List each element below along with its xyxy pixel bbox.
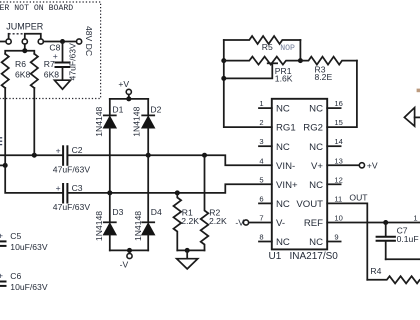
svg-text:JUMPER: JUMPER xyxy=(6,21,44,31)
svg-text:2.2K: 2.2K xyxy=(209,216,227,226)
wire: jumper pin C to 48V terminal xyxy=(43,41,76,43)
svg-text:16: 16 xyxy=(334,99,342,108)
node: rail junction at jumper pin B xyxy=(22,48,27,53)
resistor R2 xyxy=(201,155,209,250)
svg-text:1N4148: 1N4148 xyxy=(94,106,104,136)
svg-text:12: 12 xyxy=(334,175,342,184)
diode D1 xyxy=(109,99,111,116)
svg-text:C3: C3 xyxy=(72,183,83,193)
pin 6 stub xyxy=(259,202,272,204)
svg-text:-V: -V xyxy=(235,218,244,228)
capacitor C2 xyxy=(62,145,64,166)
svg-text:1.6K: 1.6K xyxy=(275,74,293,84)
svg-text:1N4148: 1N4148 xyxy=(133,211,143,241)
diode D3 xyxy=(109,193,111,222)
potentiometer PR1 xyxy=(224,57,301,65)
svg-text:+V: +V xyxy=(118,79,129,89)
svg-text:47uF/63V: 47uF/63V xyxy=(53,165,91,175)
svg-text:15: 15 xyxy=(334,118,342,127)
wire: input rail into C2 xyxy=(0,154,62,156)
wire: jumper pin B down to R6/R7 rail xyxy=(24,44,26,51)
diode D4 xyxy=(147,155,149,222)
svg-text:VOUT: VOUT xyxy=(296,199,323,210)
svg-text:8.2E: 8.2E xyxy=(315,72,333,82)
svg-text:NC: NC xyxy=(309,142,323,153)
pin 8 stub xyxy=(259,241,272,243)
terminal circle -V (pin 7) xyxy=(243,220,248,225)
wire: IC pin 10 REF to right edge xyxy=(327,222,420,224)
svg-text:C6: C6 xyxy=(10,271,21,281)
wire: C3 to IC pin 5 (VIN+) xyxy=(68,184,272,193)
terminal circle 48V DC xyxy=(77,39,82,44)
wire: D3-D4 bottom rail (-V) xyxy=(110,249,148,251)
pin 1 stub xyxy=(259,107,272,109)
op-amp U1 INA217 (body) xyxy=(272,99,327,250)
svg-text:5: 5 xyxy=(259,175,263,184)
svg-text:1N4148: 1N4148 xyxy=(94,211,104,241)
resistor R7 xyxy=(31,54,38,88)
svg-text:+V: +V xyxy=(367,160,378,170)
wire: R6 leg down to C3 xyxy=(5,88,62,193)
svg-text:6K8: 6K8 xyxy=(44,70,60,80)
resistor R6 xyxy=(2,54,9,88)
svg-text:1: 1 xyxy=(413,213,417,222)
svg-text:D1: D1 xyxy=(112,105,123,115)
svg-text:V-: V- xyxy=(276,218,285,229)
potentiometer PR1 wiper xyxy=(268,62,277,64)
terminal circle -V (bottom) xyxy=(127,253,132,258)
wire: C2 to IC pin 4 (VIN-) xyxy=(68,155,272,165)
svg-text:R4: R4 xyxy=(370,266,381,276)
node: ground junction xyxy=(185,248,190,253)
svg-text:2.2K: 2.2K xyxy=(181,216,199,226)
node: gain node (R5/PR1/R3) xyxy=(298,58,303,63)
svg-text:NC: NC xyxy=(276,199,290,210)
wire: IC pin 11 VOUT down to R4 xyxy=(327,203,367,279)
svg-text:OUT: OUT xyxy=(349,192,368,202)
svg-text:-V: -V xyxy=(120,259,129,269)
svg-text:D3: D3 xyxy=(112,207,123,217)
node: stub joins R6 leg xyxy=(3,163,8,168)
node: R1 joins VIN+ rail xyxy=(175,190,180,195)
svg-text:C2: C2 xyxy=(72,145,83,155)
wire: IC pin 13 to +V circle xyxy=(327,164,359,166)
node: C8 top junction xyxy=(60,39,65,44)
svg-text:REF: REF xyxy=(304,218,323,229)
pin 3 stub xyxy=(259,145,272,147)
dashed enclosure box (jumper not on board) xyxy=(0,2,101,99)
svg-text:10uF/63V: 10uF/63V xyxy=(10,242,48,252)
capacitor C6 (clipped) xyxy=(0,281,7,283)
resistor R3 xyxy=(300,57,357,65)
wire: R5 right down to gain node xyxy=(299,40,301,61)
svg-text:NC: NC xyxy=(276,237,290,248)
clipped label at left edge xyxy=(0,137,2,139)
node: D1/D3 join VIN+ rail xyxy=(107,190,112,195)
svg-text:NC: NC xyxy=(276,142,290,153)
svg-text:RG1: RG1 xyxy=(276,123,296,134)
node: -V rail junction xyxy=(127,248,132,253)
svg-text:R5: R5 xyxy=(262,42,273,52)
svg-text:4: 4 xyxy=(259,156,263,165)
svg-text:1: 1 xyxy=(259,99,263,108)
capacitor C3 xyxy=(62,183,64,204)
svg-text:48V DC: 48V DC xyxy=(84,26,94,56)
terminal circle +V xyxy=(126,89,131,94)
svg-text:C5: C5 xyxy=(10,231,21,241)
pin 16 stub xyxy=(327,107,340,109)
jumper pin A (circle) xyxy=(6,39,11,44)
diode D2 xyxy=(147,99,149,116)
node: +V diode rail junction xyxy=(126,96,131,101)
svg-text:R6: R6 xyxy=(15,59,26,69)
svg-text:+: + xyxy=(53,51,58,61)
svg-text:6: 6 xyxy=(259,194,263,203)
wire: D1-D2 top rail xyxy=(110,98,148,100)
capacitor C5 (clipped) xyxy=(0,240,7,242)
pin 14 stub xyxy=(327,145,340,147)
svg-text:RG2: RG2 xyxy=(303,123,323,134)
svg-text:INA217/S0: INA217/S0 xyxy=(290,251,339,262)
wire: C7 bottom to right edge xyxy=(386,258,420,260)
wire: -V rail to -V circle xyxy=(129,250,131,253)
svg-text:9: 9 xyxy=(334,233,338,242)
svg-text:V+: V+ xyxy=(311,161,323,172)
ground (input bias) xyxy=(186,250,188,258)
node: D2/D4 join VIN- rail xyxy=(146,153,151,158)
jumper pin B (circle) xyxy=(22,39,27,44)
wire: left edge stub to R6 leg xyxy=(0,164,5,166)
svg-text:NC: NC xyxy=(309,237,323,248)
svg-text:0.1uF: 0.1uF xyxy=(397,234,419,244)
terminal circle +V (pin 13) xyxy=(359,163,364,168)
wire: RG1 bus (left) xyxy=(224,40,272,127)
svg-text:U1: U1 xyxy=(269,251,282,262)
wire: R7 bottom leg xyxy=(33,88,35,155)
svg-text:3: 3 xyxy=(259,137,263,146)
ground (C8) xyxy=(55,80,71,89)
svg-text:VIN-: VIN- xyxy=(276,161,295,172)
resistor R4 xyxy=(367,276,420,283)
svg-text:47uF/63V: 47uF/63V xyxy=(68,43,78,81)
svg-text:7: 7 xyxy=(259,214,263,223)
svg-text:8: 8 xyxy=(259,233,263,242)
pin 12 stub xyxy=(327,183,340,185)
jumper pin C (circle) xyxy=(38,39,43,44)
jumper link B-C (installed) xyxy=(25,34,41,39)
svg-text:NC: NC xyxy=(276,104,290,115)
jumper link A-B (dashed, not installed) xyxy=(8,34,10,39)
clipped red mark at right edge xyxy=(417,89,420,93)
node: wiper return taps RG1 bus xyxy=(221,76,226,81)
svg-text:+: + xyxy=(56,145,61,155)
resistor R1 xyxy=(174,193,182,251)
node: PR1 taps RG1 bus xyxy=(221,58,226,63)
capacitor C7 xyxy=(385,223,387,237)
svg-text:47uF/63V: 47uF/63V xyxy=(53,202,91,212)
svg-text:6K8: 6K8 xyxy=(15,70,31,80)
wire: -V circle to IC pin 7 xyxy=(249,222,272,224)
resistor R5 xyxy=(224,36,301,44)
node: R2 joins VIN- rail xyxy=(202,153,207,158)
node: R7 joins VIN- rail xyxy=(32,153,37,158)
node: C7 taps REF line xyxy=(383,220,388,225)
svg-text:2: 2 xyxy=(259,118,263,127)
wire: R6/R7 top rail xyxy=(5,51,34,54)
off-sheet connector arrow (input at right edge) xyxy=(404,108,414,127)
capacitor C8 xyxy=(62,42,64,63)
svg-text:10uF/63V: 10uF/63V xyxy=(10,282,48,292)
svg-text:+: + xyxy=(0,270,3,280)
svg-text:NC: NC xyxy=(309,180,323,191)
svg-text:D4: D4 xyxy=(151,207,162,217)
svg-text:ER NOT ON BOARD: ER NOT ON BOARD xyxy=(0,4,73,13)
svg-text:D2: D2 xyxy=(150,105,161,115)
svg-text:10: 10 xyxy=(334,214,342,223)
wire: R3 to IC pin 15 (RG2) xyxy=(327,61,357,128)
svg-text:14: 14 xyxy=(334,137,342,146)
pin 9 stub xyxy=(327,241,340,243)
svg-text:11: 11 xyxy=(334,194,342,203)
wire: left edge to jumper pin A xyxy=(0,41,6,43)
wire: R1-R2 bottom rail xyxy=(177,249,204,251)
svg-text:NC: NC xyxy=(309,104,323,115)
svg-text:NOP: NOP xyxy=(280,44,295,53)
wire: +V circle to diode rail xyxy=(128,95,130,99)
svg-text:+: + xyxy=(56,183,61,193)
svg-text:13: 13 xyxy=(334,156,342,165)
svg-text:+: + xyxy=(0,230,3,240)
svg-text:1N4148: 1N4148 xyxy=(131,106,141,136)
svg-text:VIN+: VIN+ xyxy=(276,180,298,191)
